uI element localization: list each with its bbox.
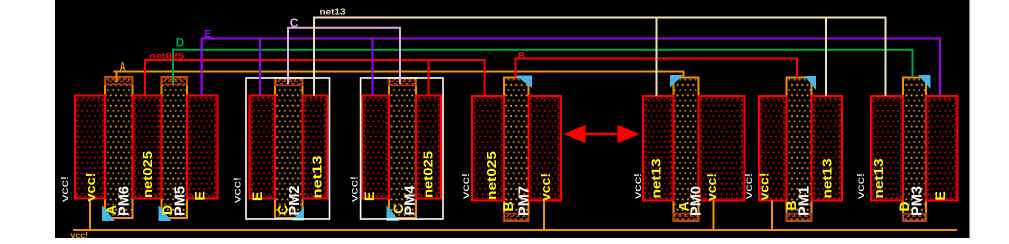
gate contact cap PM1	[786, 214, 812, 222]
node vcc diffusion G1 left	[75, 96, 105, 199]
origin marker PM3	[918, 75, 931, 89]
origin marker PM7	[516, 76, 533, 89]
svg-text:D: D	[176, 37, 184, 49]
transistor Q PM6 gate poly	[105, 77, 134, 218]
svg-text:B: B	[518, 51, 525, 62]
svg-text:net025: net025	[140, 151, 155, 198]
node net13 diffusion PM2 right	[303, 96, 328, 199]
svg-text:vcc!: vcc!	[757, 173, 772, 201]
svg-text:E: E	[361, 192, 377, 201]
svg-text:PM6: PM6	[116, 186, 133, 216]
transistor Q PM3 gate poly	[903, 78, 927, 222]
svg-text:net13: net13	[649, 159, 664, 199]
wire E	[202, 39, 940, 96]
wire D	[173, 50, 913, 84]
node E diffusion PM3 right	[926, 96, 958, 201]
svg-text:net025: net025	[484, 151, 499, 200]
svg-text:vcc!: vcc!	[349, 176, 361, 202]
node net025 diffusion PM7 left	[472, 96, 504, 201]
svg-text:vcc!: vcc!	[460, 173, 472, 199]
svg-text:vcc!: vcc!	[83, 173, 98, 202]
svg-text:E: E	[192, 191, 208, 200]
origin marker PM6	[102, 205, 115, 221]
svg-text:vcc!: vcc!	[71, 230, 89, 240]
transistor Q PM1 gate poly	[786, 78, 812, 222]
wire vcc bus	[73, 199, 957, 231]
transistor Q PM2 gate poly	[275, 78, 304, 218]
label A marker	[120, 60, 126, 74]
svg-text:C: C	[290, 16, 299, 30]
node net13 diffusion PM3 left	[871, 96, 903, 201]
svg-text:vcc!: vcc!	[59, 176, 71, 202]
transistor Q PM5 gate poly	[161, 77, 188, 218]
svg-text:PM0: PM0	[688, 186, 705, 216]
node net13 diffusion PM0 left	[643, 96, 674, 201]
gate contact cap PM5	[161, 77, 188, 85]
svg-text:PM5: PM5	[172, 186, 189, 216]
node net13 diffusion PM1 right	[812, 96, 843, 201]
svg-text:PM1: PM1	[796, 186, 813, 216]
svg-text:E: E	[204, 28, 211, 40]
svg-text:net13: net13	[820, 159, 835, 199]
svg-text:E: E	[249, 192, 265, 201]
svg-text:vcc!: vcc!	[232, 177, 244, 203]
svg-text:vcc!: vcc!	[632, 173, 644, 199]
wire A	[114, 72, 684, 83]
node E diffusion PM4 left	[362, 96, 389, 199]
gate contact cap PM4	[389, 78, 417, 86]
origin marker PM4	[387, 205, 400, 221]
svg-text:vcc!: vcc!	[743, 173, 755, 199]
svg-text:net13: net13	[310, 156, 325, 199]
svg-text:PM7: PM7	[516, 186, 533, 216]
node net025 diffusion PM4 right	[416, 96, 441, 199]
gate contact cap PM3	[903, 214, 927, 222]
svg-text:A: A	[120, 60, 126, 74]
cursor arrow	[564, 125, 640, 143]
svg-text:PM3: PM3	[909, 186, 926, 216]
transistor Q PM0 gate poly	[673, 78, 699, 222]
gate contact cap PM0	[673, 214, 699, 222]
svg-text:PM2: PM2	[286, 186, 303, 216]
node vcc diffusion PM7 right	[529, 96, 562, 201]
gate contact cap PM2	[275, 78, 304, 86]
origin marker PM0	[670, 75, 683, 88]
node E diffusion G1 right	[187, 96, 218, 199]
svg-text:net13: net13	[871, 159, 886, 199]
instance box PM2	[246, 78, 330, 219]
transistor Q PM7 gate poly	[504, 78, 530, 222]
wire B	[516, 59, 798, 78]
wire vertical overlays	[145, 18, 940, 97]
node vcc diffusion PM0 right	[699, 96, 745, 201]
svg-text:net025: net025	[149, 51, 184, 61]
node net025 diffusion G1 mid	[133, 96, 162, 199]
svg-text:B: B	[500, 201, 516, 211]
svg-text:vcc!: vcc!	[538, 173, 553, 201]
svg-text:net13: net13	[320, 7, 346, 17]
wire C	[288, 28, 400, 84]
wire net13	[314, 18, 886, 97]
transistor Q PM4 gate poly	[389, 78, 417, 218]
origin marker PM5	[159, 205, 172, 221]
gate contact cap PM7	[504, 214, 530, 222]
wire net025	[145, 60, 485, 96]
origin marker PM2	[292, 207, 304, 221]
svg-text:net025: net025	[421, 151, 436, 198]
gate contact cap PM6	[105, 77, 134, 85]
svg-text:vcc!: vcc!	[704, 173, 719, 201]
svg-text:vcc!: vcc!	[855, 173, 867, 199]
node vcc diffusion PM1 left	[759, 96, 787, 201]
node E diffusion PM2 left	[250, 96, 276, 199]
svg-text:PM4: PM4	[402, 185, 419, 216]
svg-text:E: E	[932, 191, 948, 200]
instance box PM4	[361, 78, 443, 219]
origin marker PM1	[805, 76, 817, 90]
